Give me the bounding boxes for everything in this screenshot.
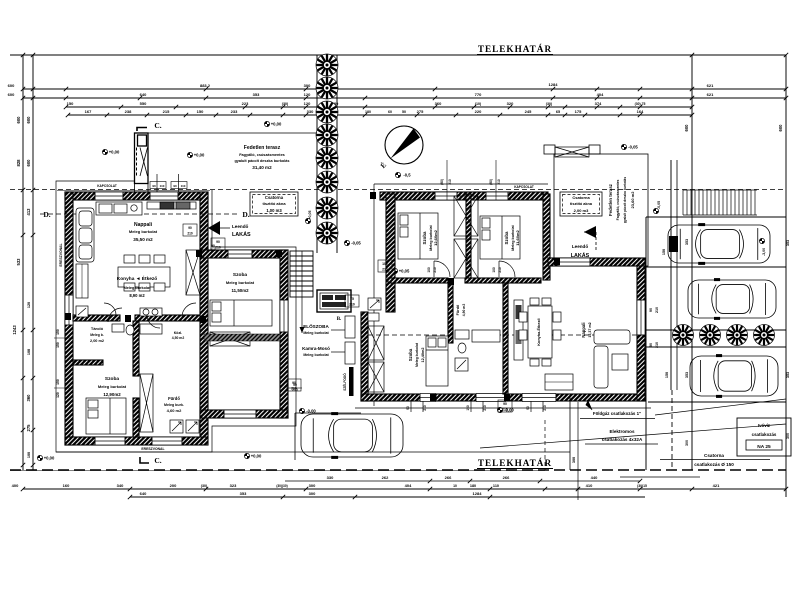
svg-text:164: 164: [637, 109, 644, 114]
svg-text:1284: 1284: [549, 82, 559, 87]
svg-text:75: 75: [350, 297, 354, 301]
svg-text:Fürdő: Fürdő: [456, 304, 460, 315]
building A interior wall small: [73, 360, 103, 365]
building A extension right wall: [280, 250, 288, 418]
svg-text:90: 90: [173, 184, 177, 188]
driveway ramp hatch: [683, 190, 757, 215]
bathroom A shower: [170, 420, 199, 433]
building B bottom wall: [361, 394, 645, 401]
svg-text:Leendő: Leendő: [572, 244, 589, 249]
terrace B thin outline: [554, 154, 648, 266]
utility callout diagonal electric: [480, 424, 786, 448]
svg-text:90: 90: [292, 381, 296, 385]
building B left wall lower: [361, 312, 368, 401]
svg-text:LAKÁS: LAKÁS: [571, 252, 590, 259]
svg-text:275: 275: [417, 109, 424, 114]
building B window dim ticks below wall: [410, 401, 412, 412]
svg-text:Elektromos: Elektromos: [609, 429, 634, 434]
svg-text:180: 180: [470, 484, 476, 488]
svg-text:D.: D.: [242, 210, 249, 219]
tree column T3: [316, 101, 338, 123]
building A bottom wall: [65, 437, 208, 445]
svg-text:csatlakozás 4x32A: csatlakozás 4x32A: [602, 437, 643, 442]
svg-text:Fedetlen terasz: Fedetlen terasz: [608, 183, 613, 216]
car parking 1: [668, 224, 770, 265]
svg-text:404: 404: [597, 92, 604, 97]
svg-text:4,50 m2: 4,50 m2: [172, 336, 185, 340]
svg-text:215: 215: [163, 109, 170, 114]
svg-text:245: 245: [525, 109, 532, 114]
svg-text:+0,00: +0,00: [251, 454, 262, 459]
svg-text:ELŐSZOBA: ELŐSZOBA: [303, 323, 329, 329]
svg-text:600: 600: [26, 116, 31, 124]
svg-text:353: 353: [786, 372, 790, 378]
svg-text:210: 210: [448, 179, 452, 185]
svg-text:210: 210: [655, 307, 659, 313]
kitchen counter A top: [96, 202, 196, 215]
svg-text:600: 600: [8, 83, 15, 88]
svg-text:gyalult pácolt deszka burkolás: gyalult pácolt deszka burkolás: [623, 177, 627, 223]
svg-text:150: 150: [56, 342, 60, 348]
elevation mark: [187, 152, 192, 157]
svg-text:12,90m2: 12,90m2: [103, 392, 121, 397]
kitchen B counter: [514, 300, 523, 360]
svg-text:+0,00: +0,00: [44, 456, 55, 461]
water connection box: [737, 418, 791, 456]
svg-text:110: 110: [493, 484, 499, 488]
svg-text:tisztító akna: tisztító akna: [570, 202, 593, 206]
door in party wall + arc: [182, 303, 196, 317]
svg-text:Földgáz csatlakozás 1": Földgáz csatlakozás 1": [593, 411, 641, 416]
svg-text:(30),75: (30),75: [635, 102, 646, 106]
svg-text:Konyha-Étkező: Konyha-Étkező: [536, 318, 541, 346]
svg-text:TELEKHATÁR: TELEKHATÁR: [478, 44, 552, 54]
svg-text:413: 413: [26, 208, 31, 216]
svg-text:(30)(30): (30)(30): [276, 484, 287, 488]
svg-text:-0,5: -0,5: [403, 173, 411, 178]
svg-text:883,2: 883,2: [200, 83, 211, 88]
building A top wall: [65, 192, 208, 200]
elevation mark: [244, 453, 249, 458]
section line D-D: [40, 213, 240, 215]
svg-text:23,60 m2: 23,60 m2: [630, 191, 635, 209]
svg-text:266: 266: [503, 475, 510, 480]
svg-text:210: 210: [187, 232, 193, 236]
svg-text:Szoba: Szoba: [408, 348, 413, 361]
elevation mark: [37, 455, 42, 460]
svg-text:Tároló: Tároló: [91, 326, 104, 331]
svg-text:+0,05: +0,05: [399, 269, 410, 274]
svg-text:150: 150: [466, 405, 470, 411]
svg-text:770: 770: [475, 92, 482, 97]
stairs direction arrow: [301, 251, 303, 333]
svg-text:90: 90: [649, 308, 653, 312]
svg-text:100: 100: [492, 267, 496, 273]
building B interior wall bath: [448, 283, 453, 343]
terrace B pergola top: [544, 145, 555, 154]
boxed door labels: [211, 238, 225, 250]
svg-text:353: 353: [685, 372, 689, 378]
svg-text:Kamra-Mosó: Kamra-Mosó: [302, 346, 330, 351]
wardrobe B hall 1: [368, 326, 384, 360]
svg-text:Meleg burkolat: Meleg burkolat: [226, 280, 255, 285]
top dimension line row 2: [23, 97, 786, 99]
svg-text:175: 175: [575, 109, 582, 114]
elevation mark: [344, 240, 349, 245]
bedroom B1 bed: [398, 213, 438, 259]
svg-text:(30)15: (30)15: [637, 484, 647, 488]
gate post blob: [669, 236, 678, 252]
svg-text:110: 110: [160, 184, 165, 188]
svg-text:200: 200: [170, 483, 177, 488]
section line (dashed) across site: [10, 189, 786, 191]
court pavement outline: [294, 413, 296, 460]
kitchen low cabinet left: [76, 264, 88, 298]
svg-text:Meleg burkolat: Meleg burkolat: [129, 229, 158, 234]
svg-text:150: 150: [56, 329, 60, 335]
svg-text:Nappali: Nappali: [134, 222, 153, 228]
svg-text:90: 90: [188, 226, 192, 230]
pavement line bottom: [56, 451, 570, 453]
building A right party wall: [200, 192, 208, 437]
tree strip vertical line left: [316, 55, 318, 253]
property boundary line bottom: [10, 469, 786, 471]
service vertical with 300 label: [577, 402, 579, 500]
wardrobe A party: [186, 250, 200, 295]
svg-text:(90): (90): [440, 179, 444, 185]
utility callout diagonal gas: [655, 399, 786, 415]
sewer manhole label B (dashed box): [560, 192, 602, 216]
building B top wall: [380, 192, 548, 200]
double washbasin on wall: [140, 308, 162, 316]
svg-text:210: 210: [483, 405, 487, 411]
elevation mark: [299, 408, 304, 413]
svg-text:LAKÁS: LAKÁS: [232, 231, 251, 238]
tree column T8: [316, 222, 338, 244]
sofa living room A: [76, 208, 94, 262]
svg-text:C.: C.: [154, 121, 161, 130]
right margin vertical lines: [691, 55, 693, 470]
svg-text:2,00 m2: 2,00 m2: [90, 339, 104, 343]
elevation mark: [653, 208, 658, 213]
terrace A top edge: [148, 132, 317, 134]
door rects connector: [345, 316, 355, 338]
svg-text:8,90 m2: 8,90 m2: [129, 293, 145, 298]
wardrobe A2 x: [210, 332, 250, 346]
svg-text:D.: D.: [43, 210, 50, 219]
building B living top wall: [548, 258, 645, 266]
svg-text:tisztító akna: tisztító akna: [262, 201, 286, 206]
tree column T5: [316, 147, 338, 169]
svg-text:Szoba: Szoba: [105, 376, 119, 382]
svg-text:Meleg burkolat: Meleg burkolat: [415, 342, 419, 367]
left margin vertical dimension lines: [22, 55, 24, 470]
top dimension line row 4: [68, 114, 692, 116]
svg-text:374: 374: [595, 101, 602, 106]
svg-text:300: 300: [304, 83, 311, 88]
building B eaves outline: [374, 184, 548, 406]
tree column T4: [316, 124, 338, 146]
dining table B: [519, 298, 561, 366]
svg-text:320: 320: [507, 101, 514, 106]
building A extension top wall: [200, 250, 288, 258]
svg-text:353: 353: [253, 92, 260, 97]
building A chimney: [135, 133, 149, 192]
svg-text:4,90 m2: 4,90 m2: [462, 304, 466, 317]
bottom dimension line row 2: [130, 496, 645, 498]
svg-text:KAPCSOLAT: KAPCSOLAT: [514, 185, 534, 189]
building A extension bottom wall: [200, 410, 288, 418]
svg-text:120: 120: [56, 392, 60, 398]
svg-text:180: 180: [365, 110, 371, 114]
svg-text:Szoba: Szoba: [233, 272, 247, 278]
elevation mark: [305, 218, 310, 223]
car parking 3: [690, 355, 778, 398]
tree column T7: [316, 197, 338, 219]
svg-text:210: 210: [291, 387, 297, 391]
svg-text:600: 600: [26, 159, 31, 167]
svg-text:90: 90: [503, 402, 507, 406]
svg-text:600: 600: [778, 124, 783, 132]
tree column T6: [316, 171, 338, 193]
svg-text:15,37 m2: 15,37 m2: [588, 322, 592, 337]
stairs at entry: [290, 251, 313, 297]
svg-text:323: 323: [230, 483, 237, 488]
elevation mark: [497, 407, 502, 412]
svg-text:150: 150: [67, 101, 74, 106]
svg-text:SZÉLFOGÓ: SZÉLFOGÓ: [342, 373, 347, 391]
svg-text:Csatorna: Csatorna: [265, 195, 284, 200]
dashed service vertical: [544, 420, 546, 470]
tree row R3: [727, 325, 748, 346]
bottom partial dim rows: [285, 480, 640, 482]
tree column T2: [316, 77, 338, 99]
svg-text:csatlakozás Ø 150: csatlakozás Ø 150: [694, 462, 734, 467]
svg-text:210: 210: [502, 408, 508, 412]
svg-text:TELEKHATÁR: TELEKHATÁR: [478, 458, 552, 468]
svg-text:400: 400: [12, 483, 19, 488]
svg-text:90: 90: [526, 406, 530, 410]
svg-text:210: 210: [655, 342, 659, 348]
svg-text:404: 404: [405, 483, 412, 488]
top dimension line row 1: [23, 88, 786, 90]
svg-text:330: 330: [307, 109, 314, 114]
svg-text:300: 300: [309, 483, 316, 488]
parking vertical line a: [645, 217, 647, 470]
top dimension line row 3: [66, 106, 692, 108]
svg-text:31,40 m2: 31,40 m2: [252, 165, 272, 170]
svg-text:600: 600: [16, 116, 21, 124]
svg-text:360: 360: [435, 101, 442, 106]
svg-text:Meleg burk.: Meleg burk.: [164, 403, 184, 407]
svg-text:90: 90: [649, 343, 653, 347]
bed B szoba lower: [426, 336, 448, 386]
door arcs bedrooms: [434, 261, 450, 277]
svg-text:Fürdő: Fürdő: [168, 396, 180, 401]
svg-text:NA 25: NA 25: [757, 444, 771, 450]
tree row R4: [754, 325, 775, 346]
svg-text:108: 108: [27, 349, 31, 355]
svg-text:150: 150: [662, 249, 666, 255]
svg-text:300: 300: [786, 433, 790, 439]
elevation mark: [392, 268, 397, 273]
svg-text:(30): (30): [201, 484, 208, 488]
svg-text:Leendő: Leendő: [232, 224, 249, 229]
svg-text:+0,00: +0,00: [271, 122, 282, 127]
car bottom center: [301, 413, 403, 459]
svg-text:90: 90: [406, 406, 410, 410]
window dim extensions above B: [446, 160, 448, 200]
property boundary line top (TELEKHATAR): [10, 54, 786, 56]
svg-text:50: 50: [402, 110, 406, 114]
svg-text:640: 640: [140, 491, 147, 496]
elevation mark: [621, 144, 626, 149]
svg-text:Szoba: Szoba: [504, 231, 509, 244]
svg-text:Meleg burkolat: Meleg burkolat: [303, 331, 329, 335]
wc fixtures A: [112, 324, 162, 335]
wardrobe B1: [454, 196, 478, 236]
bottom dimension line row 1: [23, 488, 786, 490]
svg-text:B.: B.: [337, 317, 342, 322]
building B eaves bottom: [355, 407, 651, 409]
building A inner eaves line: [57, 190, 210, 192]
svg-text:353: 353: [240, 491, 247, 496]
svg-text:233: 233: [231, 109, 238, 114]
svg-text:150: 150: [197, 109, 204, 114]
svg-text:440: 440: [591, 475, 598, 480]
svg-text:Szoba: Szoba: [422, 231, 427, 244]
svg-text:100: 100: [427, 267, 431, 273]
svg-text:+0,00: +0,00: [194, 153, 205, 158]
svg-text:150: 150: [665, 372, 669, 378]
svg-text:Közl.: Közl.: [174, 331, 183, 335]
svg-text:12,40m2: 12,40m2: [421, 348, 425, 363]
svg-text:11,50m2: 11,50m2: [231, 288, 249, 293]
building B interior wall between bedrooms: [466, 194, 471, 280]
wardrobe B2: [454, 239, 478, 278]
dining table A: [118, 255, 170, 291]
svg-text:353: 353: [786, 240, 790, 246]
svg-text:60: 60: [388, 110, 392, 114]
svg-text:210: 210: [215, 246, 221, 250]
tree strip vertical line right: [336, 55, 338, 253]
svg-text:90: 90: [216, 240, 220, 244]
svg-text:533: 533: [16, 258, 21, 266]
svg-text:340: 340: [117, 483, 124, 488]
svg-text:275: 275: [26, 424, 31, 432]
svg-text:160: 160: [63, 483, 70, 488]
svg-text:-3,00: -3,00: [762, 248, 766, 256]
svg-text:220: 220: [475, 109, 482, 114]
svg-text:266: 266: [445, 475, 452, 480]
svg-text:828: 828: [16, 159, 21, 167]
wardrobe B hall 2: [368, 362, 384, 392]
svg-text:-0,05: -0,05: [657, 201, 661, 209]
tree row R2: [700, 325, 721, 346]
black pillar bar: [349, 367, 354, 396]
svg-text:100: 100: [382, 262, 388, 266]
bedroom A2 bed: [210, 300, 272, 326]
building B right wall bedroom block: [543, 194, 550, 280]
svg-text:11,60m2: 11,60m2: [515, 229, 520, 245]
svg-text:Ivóvíz: Ivóvíz: [758, 423, 771, 428]
svg-text:300: 300: [309, 491, 316, 496]
svg-text:90: 90: [152, 184, 156, 188]
building A interior wall horizontal: [73, 315, 120, 321]
svg-text:100: 100: [27, 452, 31, 458]
hatched insulation band A2: [204, 334, 280, 341]
svg-text:353: 353: [685, 239, 689, 245]
svg-text:150: 150: [56, 379, 60, 385]
svg-text:Csatorna: Csatorna: [572, 195, 590, 200]
svg-text:Fagyálló, csúszásmentes: Fagyálló, csúszásmentes: [239, 153, 285, 157]
svg-text:300: 300: [685, 440, 689, 446]
svg-text:-0,05: -0,05: [351, 241, 361, 246]
svg-text:Meleg burkolat: Meleg burkolat: [98, 384, 127, 389]
svg-text:10: 10: [453, 484, 457, 488]
svg-text:(30): (30): [282, 102, 289, 106]
svg-text:210: 210: [349, 303, 355, 307]
svg-text:210: 210: [498, 267, 502, 273]
building B interior corridor wall: [388, 278, 448, 283]
svg-text:210: 210: [423, 405, 427, 411]
svg-text:(30): (30): [546, 102, 553, 106]
svg-text:Meleg burkolat: Meleg burkolat: [303, 353, 329, 357]
corner shower A living: [76, 306, 88, 317]
svg-text:1243: 1243: [12, 325, 17, 335]
svg-text:600: 600: [8, 92, 15, 97]
elevation mark: [395, 172, 400, 177]
svg-text:2,00 m3: 2,00 m3: [574, 208, 589, 213]
svg-text:Meleg burkolat: Meleg burkolat: [124, 286, 152, 290]
svg-text:238: 238: [125, 109, 132, 114]
svg-text:110: 110: [181, 184, 186, 188]
north arrow: [385, 126, 423, 164]
svg-text:223: 223: [242, 101, 249, 106]
svg-text:300: 300: [572, 457, 576, 463]
svg-text:C.: C.: [154, 456, 161, 465]
svg-text:120: 120: [304, 92, 311, 97]
building B right wall: [637, 266, 645, 401]
elevation mark: [102, 149, 107, 154]
svg-text:(90): (90): [489, 179, 493, 185]
building B left wall upper: [386, 194, 395, 312]
svg-text:ERESZVONAL: ERESZVONAL: [59, 243, 63, 266]
svg-text:120: 120: [27, 302, 31, 308]
trash/storage box between buildings: [317, 290, 351, 312]
svg-text:210: 210: [382, 268, 388, 272]
car parking 2: [688, 279, 776, 320]
svg-text:Csatorna: Csatorna: [704, 453, 724, 458]
svg-text:65: 65: [556, 110, 560, 114]
svg-text:Meleg b.: Meleg b.: [90, 333, 104, 337]
svg-text:ERESZVONAL: ERESZVONAL: [141, 447, 164, 451]
sofa under window B: [545, 374, 573, 390]
parking horizontal lines: [646, 216, 786, 218]
svg-text:600: 600: [684, 124, 689, 132]
svg-text:35,50 m2: 35,50 m2: [133, 237, 153, 242]
svg-text:Nappali: Nappali: [581, 322, 586, 337]
svg-text:167: 167: [85, 109, 92, 114]
svg-text:210: 210: [433, 267, 437, 273]
bath B fixtures: [455, 330, 500, 371]
svg-text:-0,05: -0,05: [628, 145, 638, 150]
svg-text:gyalult pácolt deszka burkolás: gyalult pácolt deszka burkolás: [234, 159, 289, 163]
wardrobe A: [140, 374, 153, 432]
building A interior wall vertical: [133, 321, 139, 376]
section dashed line through B: [368, 334, 637, 336]
interior door arcs A: [108, 308, 122, 322]
